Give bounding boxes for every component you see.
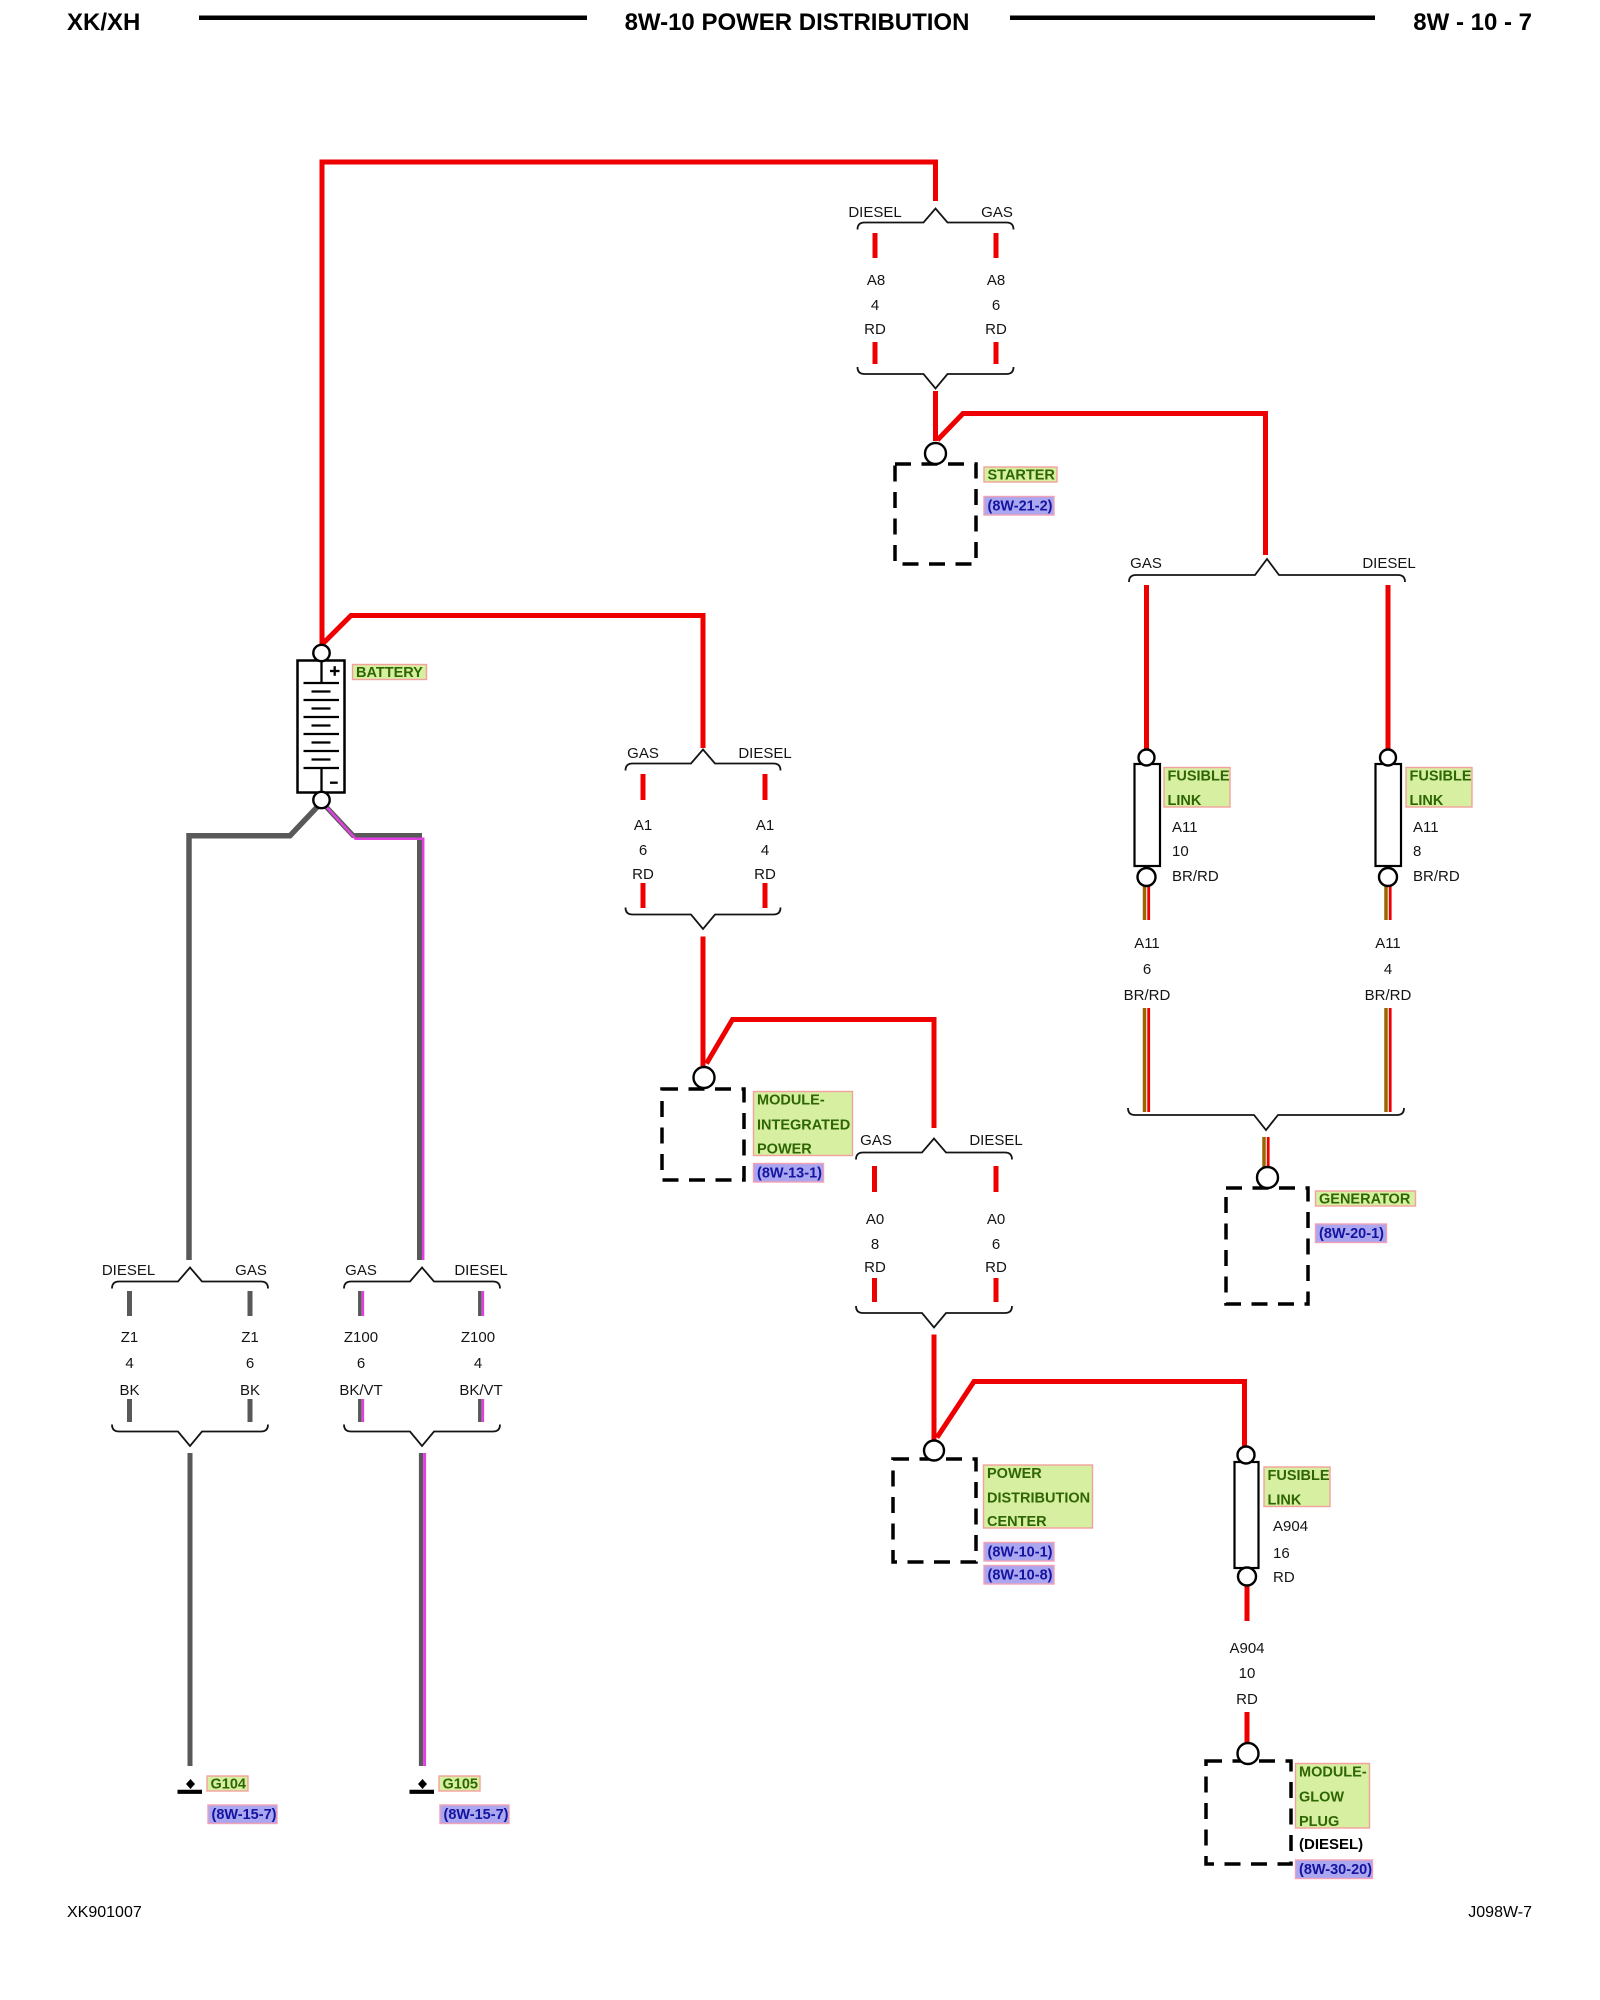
svg-text:G105: G105 [443,1777,478,1793]
svg-text:DIESEL: DIESEL [738,745,791,762]
fusible link diesel top circle [1380,750,1396,766]
svg-text:A0: A0 [866,1211,884,1228]
label MODULE-INTEGRATED POWER [754,1092,853,1156]
svg-text:BR/RD: BR/RD [1413,868,1460,885]
wire A11 10 BR/RD below gas fusible link [1143,886,1147,920]
svg-text:(DIESEL): (DIESEL) [1299,1836,1363,1853]
label BATTERY [353,665,427,680]
svg-text:POWER: POWER [757,1142,812,1158]
svg-text:GAS: GAS [860,1132,892,1149]
splice brace A1 bottom [626,908,781,930]
wire A0 output down to PDC junction [932,1335,937,1441]
svg-text:GAS: GAS [345,1262,377,1279]
svg-text:STARTER: STARTER [988,468,1056,484]
wire diesel fusible link feed [1386,585,1391,750]
svg-text:RD: RD [985,321,1007,338]
generator connector box [1226,1188,1308,1304]
svg-text:A904: A904 [1273,1518,1308,1535]
svg-text:PLUG: PLUG [1299,1814,1339,1830]
label GENERATOR [1316,1191,1416,1206]
wire stub Z1 diesel bottom [127,1399,132,1422]
svg-text:GENERATOR: GENERATOR [1319,1192,1411,1208]
label FUSIBLE LINK A904 [1264,1467,1330,1507]
svg-text:XK/XH: XK/XH [67,9,140,36]
wire stub A1 gas top [641,774,646,800]
svg-text:BR/RD: BR/RD [1124,987,1171,1004]
svg-text:6: 6 [992,297,1000,314]
battery minus terminal mark [330,782,338,784]
svg-text:16: 16 [1273,1545,1290,1562]
svg-text:DIESEL: DIESEL [102,1262,155,1279]
svg-text:CENTER: CENTER [987,1514,1047,1530]
svg-text:J098W-7: J098W-7 [1468,1904,1532,1921]
label POWER DISTRIBUTION CENTER [984,1465,1093,1528]
svg-text:Z1: Z1 [241,1329,259,1346]
wire stub A0 diesel bottom [994,1278,999,1302]
svg-text:FUSIBLE: FUSIBLE [1410,769,1472,785]
wire battery- BK to G104 run [189,804,320,1260]
fusible link diesel bottom circle [1379,868,1397,886]
wire stub Z100 diesel bottom [478,1399,482,1422]
svg-text:A8: A8 [987,272,1005,289]
page ref (8W-20-1) [1316,1224,1387,1243]
svg-text:GLOW: GLOW [1299,1790,1344,1806]
svg-text:6: 6 [1143,961,1151,978]
svg-text:Z100: Z100 [344,1329,378,1346]
ground G104 symbol [178,1779,203,1792]
wire battery+ branch to A1 splice brace [324,616,704,749]
svg-text:(8W-30-20): (8W-30-20) [1299,1862,1372,1878]
wire stub A1 gas bottom [641,883,646,908]
svg-text:BK/VT: BK/VT [459,1382,502,1399]
label FUSIBLE LINK diesel [1406,768,1472,808]
wire A11 6 BR/RD gas long run [1143,1008,1147,1112]
svg-text:Z100: Z100 [461,1329,495,1346]
splice brace A0 bottom [856,1306,1012,1328]
svg-text:DIESEL: DIESEL [454,1262,507,1279]
svg-text:LINK: LINK [1410,793,1444,809]
svg-text:BK: BK [240,1382,260,1399]
fusible link gas body [1135,764,1161,866]
svg-text:BK/VT: BK/VT [339,1382,382,1399]
svg-text:RD: RD [632,866,654,883]
module-integrated power splice circle [694,1067,715,1088]
svg-text:DIESEL: DIESEL [969,1132,1022,1149]
wire battery- BK/VT violet tracer [327,808,423,1261]
battery negative terminal circle [313,792,329,808]
page ref (8W-10-1) [984,1543,1054,1562]
wire gas fusible link feed [1144,585,1149,750]
page ref (8W-21-2) [984,497,1054,516]
wire A11 4 BR/RD diesel long run [1384,1008,1388,1112]
splice brace Z1 top [112,1268,268,1289]
wire stub A1 diesel top [763,774,768,800]
splice brace A11 bottom [1128,1108,1404,1130]
wire stub A0 diesel top [994,1166,999,1192]
battery plus terminal mark [330,670,340,672]
wire stub A8 gas bottom [994,342,999,364]
svg-text:LINK: LINK [1268,1493,1302,1509]
page ref (8W-15-7) right [440,1805,509,1824]
svg-text:GAS: GAS [235,1262,267,1279]
starter splice circle [925,443,946,464]
svg-text:4: 4 [871,297,879,314]
fusible link A904 bottom circle [1238,1568,1256,1586]
fusible link A904 body [1235,1462,1259,1568]
svg-text:BR/RD: BR/RD [1172,868,1219,885]
splice brace A8 top [858,209,1014,230]
splice brace Z100 bottom [344,1425,500,1447]
svg-text:A8: A8 [867,272,885,289]
svg-text:A904: A904 [1229,1640,1264,1657]
page ref (8W-13-1) [754,1164,824,1183]
svg-text:A11: A11 [1172,819,1198,836]
label MODULE-GLOW PLUG [1296,1764,1370,1829]
splice brace Z1 bottom [112,1425,268,1447]
wire battery+ riser and top run to A8 splice [322,162,936,646]
svg-text:RD: RD [754,866,776,883]
svg-text:GAS: GAS [981,204,1013,221]
svg-text:LINK: LINK [1168,793,1202,809]
wire A1 output down to module-integrated-power junction [701,937,706,1067]
svg-text:(8W-13-1): (8W-13-1) [757,1166,822,1182]
svg-text:(8W-20-1): (8W-20-1) [1319,1226,1384,1242]
svg-text:4: 4 [1384,961,1392,978]
svg-text:(8W-15-7): (8W-15-7) [444,1807,509,1823]
fusible link gas top circle [1139,750,1155,766]
wire battery- BK/VT gray part [324,804,420,1260]
svg-text:GAS: GAS [627,745,659,762]
wire stub Z100 diesel top [478,1291,482,1316]
label G105 [439,1776,480,1791]
svg-text:6: 6 [992,1236,1000,1253]
wire stub A8 diesel bottom [873,342,878,364]
splice brace A1 top [626,750,781,771]
svg-text:RD: RD [1236,1691,1258,1708]
header rule right [1010,16,1375,21]
svg-text:INTEGRATED: INTEGRATED [757,1118,850,1134]
page ref (8W-30-20) [1296,1860,1373,1879]
svg-text:10: 10 [1239,1665,1256,1682]
splice brace A8 bottom [858,367,1014,389]
svg-text:RD: RD [864,1259,886,1276]
label G104 [207,1776,248,1791]
module-integrated power connector box [662,1089,744,1180]
svg-text:DIESEL: DIESEL [848,204,901,221]
module-glow plug connector box [1206,1761,1291,1864]
wire stub A1 diesel bottom [763,883,768,908]
splice brace A11 top [1129,559,1405,582]
wire Z1 to ground G104 [188,1453,193,1766]
svg-text:MODULE-: MODULE- [757,1093,825,1109]
svg-text:DIESEL: DIESEL [1362,555,1415,572]
wire stub Z1 gas top [248,1291,253,1316]
ground G105 symbol [410,1779,435,1792]
wire PDC junction branch to fusible link A904 [937,1382,1245,1448]
splice brace Z100 top [344,1268,500,1289]
generator terminal circle [1257,1167,1278,1188]
svg-text:RD: RD [864,321,886,338]
wire Z100 to ground G105 gray part [419,1453,423,1766]
svg-text:(8W-15-7): (8W-15-7) [212,1807,277,1823]
svg-text:FUSIBLE: FUSIBLE [1268,1468,1330,1484]
wire stub Z1 gas bottom [248,1399,253,1422]
svg-text:A1: A1 [634,817,652,834]
svg-text:8W-10 POWER DISTRIBUTION: 8W-10 POWER DISTRIBUTION [625,9,970,36]
wire stub A8 gas top [994,233,999,258]
svg-text:A11: A11 [1375,935,1401,952]
wire module junction branch to A0 brace [707,1020,935,1129]
svg-text:A1: A1 [756,817,774,834]
svg-text:A11: A11 [1134,935,1160,952]
svg-text:MODULE-: MODULE- [1299,1765,1367,1781]
label FUSIBLE LINK gas [1164,768,1230,808]
header rule left [199,16,587,21]
battery positive terminal circle [313,645,329,661]
svg-text:BATTERY: BATTERY [356,665,423,681]
svg-text:XK901007: XK901007 [67,1904,142,1921]
svg-text:GAS: GAS [1130,555,1162,572]
wire A904 16 RD below fusible link [1245,1585,1250,1621]
wire stub A0 gas bottom [872,1278,877,1302]
svg-text:(8W-10-1): (8W-10-1) [988,1545,1053,1561]
svg-text:BR/RD: BR/RD [1365,987,1412,1004]
label STARTER [984,467,1057,482]
wire A8 splice output to starter junction [933,391,938,441]
svg-text:4: 4 [474,1355,482,1372]
svg-text:Z1: Z1 [121,1329,139,1346]
fusible link A904 top circle [1238,1447,1255,1464]
svg-text:RD: RD [985,1259,1007,1276]
svg-text:RD: RD [1273,1569,1295,1586]
svg-text:8: 8 [871,1236,879,1253]
svg-text:(8W-10-8): (8W-10-8) [988,1568,1053,1584]
svg-text:A0: A0 [987,1211,1005,1228]
svg-text:FUSIBLE: FUSIBLE [1168,769,1230,785]
svg-text:G104: G104 [211,1777,246,1793]
svg-text:8: 8 [1413,843,1421,860]
svg-text:(8W-21-2): (8W-21-2) [988,499,1053,515]
wire stub Z100 gas top [358,1291,362,1316]
wire Z100 to ground G105 violet tracer [423,1453,426,1766]
power distribution center connector box [893,1459,976,1562]
wire starter junction branch to fusible-link brace [938,414,1266,556]
svg-text:POWER: POWER [987,1466,1042,1482]
svg-text:A11: A11 [1413,819,1439,836]
wire A904 10 RD to glow plug module [1245,1712,1250,1743]
wire stub Z100 gas bottom [358,1399,362,1422]
svg-text:10: 10 [1172,843,1189,860]
wire stub A0 gas top [872,1166,877,1192]
PDC splice circle [924,1441,944,1461]
svg-text:4: 4 [761,842,769,859]
fusible link diesel body [1376,764,1402,866]
svg-text:8W - 10 - 7: 8W - 10 - 7 [1413,9,1532,36]
wire stub Z1 diesel top [127,1291,132,1316]
svg-text:DISTRIBUTION: DISTRIBUTION [987,1491,1090,1507]
svg-text:6: 6 [357,1355,365,1372]
page ref (8W-15-7) left [208,1805,277,1824]
battery [298,661,345,793]
svg-text:4: 4 [125,1355,133,1372]
splice brace A0 top [856,1139,1012,1160]
wire BR/RD stub to generator [1262,1137,1266,1167]
wire A11 8 BR/RD below diesel fusible link [1384,886,1388,920]
svg-text:6: 6 [639,842,647,859]
wire stub A8 diesel top [873,233,878,258]
svg-text:BK: BK [119,1382,139,1399]
svg-text:6: 6 [246,1355,254,1372]
page ref (8W-10-8) [984,1566,1054,1585]
starter connector box [895,464,976,564]
fusible link gas bottom circle [1138,868,1156,886]
glow plug module terminal circle [1238,1743,1259,1764]
